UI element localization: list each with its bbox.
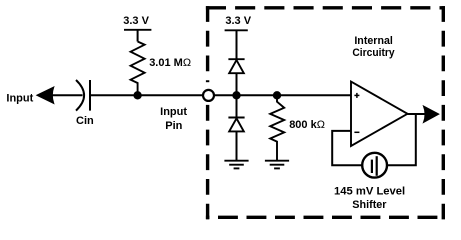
junction (diode clamp node) bbox=[232, 91, 240, 99]
power rail 3.3 V (left) bbox=[123, 15, 151, 42]
internal circuitry boundary (dashed box) bbox=[206, 6, 445, 219]
junction (800 kohm node) bbox=[273, 91, 281, 99]
power rail 3.3 V (internal) bbox=[225, 15, 252, 59]
svg-text:Cin: Cin bbox=[76, 115, 94, 127]
wire (level shifter to op-amp - input) bbox=[332, 131, 362, 165]
label Internal Circuitry bbox=[352, 35, 395, 59]
svg-text:Input: Input bbox=[6, 92, 33, 104]
wire (Cin to op-amp + input, main horizontal net) bbox=[90, 94, 351, 96]
resistor 3.01 Mohm bbox=[131, 42, 145, 96]
svg-text:3.01 MΩ: 3.01 MΩ bbox=[149, 57, 191, 69]
output arrow bbox=[423, 106, 438, 123]
svg-text:145 mV Level: 145 mV Level bbox=[334, 186, 405, 198]
diode D2 (clamp to ground) bbox=[228, 95, 244, 160]
svg-text:3.3 V: 3.3 V bbox=[123, 15, 149, 27]
svg-text:Pin: Pin bbox=[165, 120, 182, 132]
junction (3.01 Mohm to input net) bbox=[133, 91, 141, 99]
input arrow (to Input terminal) bbox=[37, 87, 54, 104]
label 145 mV Level Shifter bbox=[334, 186, 405, 212]
svg-text:Circuitry: Circuitry bbox=[352, 47, 395, 59]
capacitor Cin bbox=[76, 80, 90, 111]
svg-text:Input: Input bbox=[160, 106, 187, 118]
svg-text:3.3 V: 3.3 V bbox=[225, 15, 251, 27]
svg-text:800 kΩ: 800 kΩ bbox=[289, 119, 325, 131]
wire (feedback: output down to level shifter) bbox=[387, 114, 416, 165]
resistor 800 kohm bbox=[270, 95, 284, 160]
ground (below 800 kohm) bbox=[265, 161, 289, 169]
node Input Pin (open terminal circle) bbox=[205, 82, 210, 90]
ground (below D2) bbox=[224, 161, 248, 169]
diode D1 (clamp to 3.3 V) bbox=[228, 59, 244, 95]
op-amp U1 bbox=[351, 82, 408, 146]
wire (arrow to Cin) bbox=[52, 94, 83, 96]
svg-text:Internal: Internal bbox=[354, 35, 393, 47]
label Input Pin bbox=[160, 106, 187, 132]
level shifter source (145 mV) bbox=[362, 153, 387, 178]
svg-text:Shifter: Shifter bbox=[352, 199, 387, 211]
wire (op-amp output) bbox=[408, 113, 426, 115]
